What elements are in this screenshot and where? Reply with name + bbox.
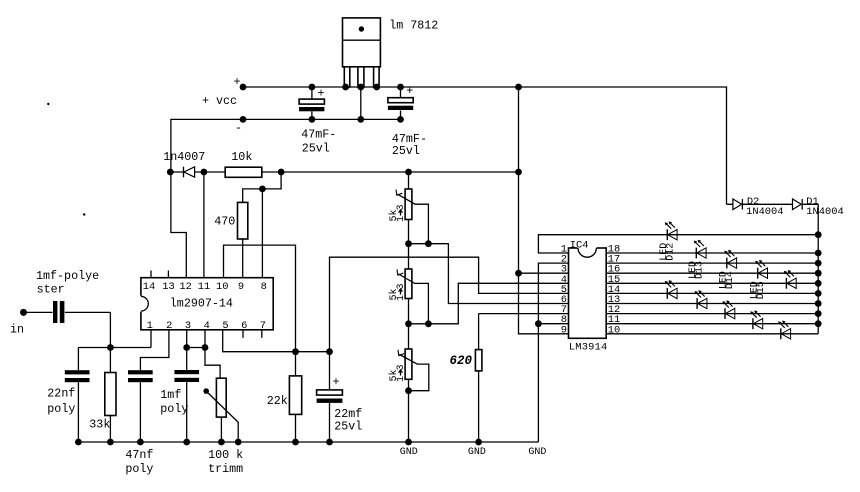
svg-text:12: 12 xyxy=(179,281,191,293)
LED 6 xyxy=(665,280,677,299)
resistor R9 620 xyxy=(450,314,482,442)
svg-text:1: 1 xyxy=(147,320,153,332)
capacitor C3 1mf-polyester xyxy=(24,269,111,323)
potentiometer R8 5k 1-3 xyxy=(388,324,429,391)
wire pin18 row xyxy=(606,252,818,254)
node v+ rail tap xyxy=(515,169,522,176)
svg-text:in: in xyxy=(10,323,24,337)
svg-text:poly: poly xyxy=(160,402,188,416)
svg-text:25vl: 25vl xyxy=(392,144,420,158)
resistor R1 10k xyxy=(225,150,262,177)
wire 7812 middle leg xyxy=(360,87,362,119)
node trimmer chain top xyxy=(405,169,412,176)
node R8 bottom xyxy=(405,387,412,394)
svg-text:1N4004: 1N4004 xyxy=(806,206,843,218)
svg-text:9: 9 xyxy=(238,281,244,293)
node R6 wiper join xyxy=(425,240,432,247)
svg-text:13: 13 xyxy=(162,281,174,293)
svg-text:GND: GND xyxy=(528,447,546,458)
resistor R5 22k xyxy=(267,352,302,442)
LED D12 xyxy=(665,221,677,240)
svg-text:6: 6 xyxy=(241,320,247,332)
LED D13 label xyxy=(688,261,706,279)
wire pin6 stub xyxy=(242,330,244,338)
node vcc to IC4 tap xyxy=(515,84,522,91)
svg-text:lm 7812: lm 7812 xyxy=(389,19,438,33)
LED D15 label xyxy=(750,281,768,299)
wire pin15 row xyxy=(606,282,818,284)
node pin3 xyxy=(183,344,190,351)
wire pin7 stub xyxy=(261,330,263,338)
wire D2 D1 feed row xyxy=(727,203,819,205)
svg-text:14: 14 xyxy=(143,281,155,293)
wire pin10 route xyxy=(224,245,296,352)
speck 2 xyxy=(83,213,85,215)
LED 5 xyxy=(784,270,796,289)
potentiometer R4 100 k trimm xyxy=(203,348,243,477)
wire pin7 row xyxy=(479,313,569,315)
node 620 gnd xyxy=(475,439,482,446)
svg-text:+ vcc: + vcc xyxy=(202,94,237,108)
wire pin5 output row xyxy=(223,330,330,352)
svg-text:D15: D15 xyxy=(756,281,767,299)
potentiometer R7 5k 1-3 xyxy=(388,244,429,324)
svg-text:poly: poly xyxy=(125,462,153,476)
svg-text:3: 3 xyxy=(396,283,407,289)
LED D14 label xyxy=(719,271,737,289)
LED 8 xyxy=(722,300,734,319)
capacitor C6 1mf poly xyxy=(160,370,199,442)
capacitor C2 47mF-25vl xyxy=(388,84,427,158)
node R8 gnd xyxy=(405,439,412,446)
node anode rail junctions xyxy=(815,231,822,238)
wire LED anode rail xyxy=(817,204,819,333)
resistor R2 470 xyxy=(214,202,248,239)
wire pin13 stub xyxy=(167,271,169,278)
svg-text:lm2907-14: lm2907-14 xyxy=(170,297,233,311)
wire signal to pin5 xyxy=(330,257,569,352)
svg-text:11: 11 xyxy=(198,281,210,293)
node legs xyxy=(342,84,349,91)
node in terminal xyxy=(20,309,27,316)
wire pin14 stub xyxy=(150,271,152,278)
svg-text:GND: GND xyxy=(400,447,418,458)
LED D13 xyxy=(694,240,706,259)
wire R7 bottom to pin4 xyxy=(409,283,569,324)
svg-text:+: + xyxy=(406,84,413,98)
svg-text:D12: D12 xyxy=(666,243,677,261)
LED 7 xyxy=(695,290,707,309)
svg-text:10: 10 xyxy=(216,281,228,293)
potentiometer R6 5k 1-3 xyxy=(388,172,429,244)
node input junction xyxy=(107,344,114,351)
wire pin11 drop xyxy=(203,172,205,278)
op-amp U1 lm2907-14 xyxy=(140,278,274,332)
svg-text:+: + xyxy=(234,75,241,89)
svg-text:ster: ster xyxy=(37,283,65,297)
node + terminal xyxy=(240,84,247,91)
wire pin10 row xyxy=(606,333,818,335)
svg-text:3: 3 xyxy=(185,320,191,332)
svg-text:D14: D14 xyxy=(725,271,736,289)
wire 470 to pin9 xyxy=(242,239,244,278)
svg-text:+: + xyxy=(333,375,340,389)
svg-text:3: 3 xyxy=(396,204,407,210)
wire pin2 route xyxy=(140,330,169,370)
svg-text:470: 470 xyxy=(214,215,235,229)
node diode right xyxy=(201,169,208,176)
node R7 bottom xyxy=(405,320,412,327)
wire 12V secondary rail xyxy=(204,171,519,173)
svg-text:47nf: 47nf xyxy=(125,448,153,462)
node pin8 junction xyxy=(535,320,542,327)
svg-text:LM3914: LM3914 xyxy=(569,342,608,354)
wire pin13 row xyxy=(606,303,818,305)
node 22k top xyxy=(292,348,299,355)
node pin3 junction xyxy=(515,270,522,277)
resistor R3 33k xyxy=(89,348,116,443)
wire R6 bottom to pin6 xyxy=(409,244,569,304)
svg-text:22nf: 22nf xyxy=(47,386,75,400)
svg-text:trimm: trimm xyxy=(208,462,243,476)
svg-text:620: 620 xyxy=(450,354,473,368)
svg-text:1mf: 1mf xyxy=(160,388,181,402)
node C1 top xyxy=(309,84,316,91)
wire minus rail xyxy=(171,119,401,172)
diode D1 1N4004 xyxy=(793,196,844,218)
wire pin12 row xyxy=(606,313,818,315)
LED D12 label xyxy=(659,243,677,261)
wire ground rail xyxy=(78,441,538,443)
node R7 wiper join xyxy=(425,320,432,327)
svg-text:47mF-: 47mF- xyxy=(301,128,336,142)
svg-text:1n4007: 1n4007 xyxy=(163,150,205,164)
svg-text:poly: poly xyxy=(47,402,75,416)
svg-text:GND: GND xyxy=(468,447,486,458)
wire pin3 pin4 node xyxy=(187,330,205,370)
wire pin2 to ground xyxy=(538,263,568,442)
svg-text:22k: 22k xyxy=(267,394,288,408)
wire pin11 row xyxy=(606,323,818,325)
wire pin16 row xyxy=(606,272,818,274)
svg-text:D13: D13 xyxy=(695,261,706,279)
wire R8 to ground xyxy=(408,391,410,442)
wire input drop xyxy=(109,312,111,347)
svg-text:-: - xyxy=(235,121,242,135)
wire pin8 tap xyxy=(538,323,568,325)
capacitor C4 22nf poly xyxy=(47,370,89,442)
diode D3 1n4007 xyxy=(163,150,205,177)
node diode left xyxy=(167,169,174,176)
capacitor C5 47nf poly xyxy=(125,370,153,476)
svg-text:1N4004: 1N4004 xyxy=(746,206,783,218)
wire pin14 row xyxy=(606,292,818,294)
node C2 top xyxy=(397,84,404,91)
svg-text:1: 1 xyxy=(396,376,407,382)
svg-text:8: 8 xyxy=(261,281,267,293)
node pin4 xyxy=(202,344,209,351)
node R6 bottom xyxy=(405,240,412,247)
LED D14 xyxy=(724,250,736,269)
svg-text:10: 10 xyxy=(608,324,620,336)
node 10k right xyxy=(278,169,285,176)
svg-text:1mf-polye: 1mf-polye xyxy=(36,269,99,283)
wire minus rail down jog to pin12 xyxy=(171,172,186,278)
wire 470 feed xyxy=(243,172,281,202)
node C1 bottom xyxy=(309,116,316,123)
capacitor C7 22mf 25vl xyxy=(317,352,363,442)
capacitor C1 47mF-25vl xyxy=(299,87,336,156)
node C2 bottom xyxy=(397,116,404,123)
diode D2 1N4004 xyxy=(733,196,784,218)
LED 10 xyxy=(778,321,790,340)
svg-text:10k: 10k xyxy=(231,150,252,164)
svg-text:IC4: IC4 xyxy=(570,239,589,251)
LED 9 xyxy=(750,310,762,329)
svg-text:25vl: 25vl xyxy=(334,420,362,434)
node - terminal xyxy=(240,116,247,123)
wire pin8 drop xyxy=(261,189,263,278)
regulator U2 lm 7812 xyxy=(343,18,439,87)
wire v+ vertical to pin3 pin9 xyxy=(519,87,569,334)
wire pin17 row xyxy=(606,262,818,264)
svg-text:100 k: 100 k xyxy=(208,448,243,462)
svg-text:7: 7 xyxy=(260,320,266,332)
wire input node row xyxy=(78,330,151,370)
LED D15 xyxy=(755,260,767,279)
svg-text:25vl: 25vl xyxy=(302,142,330,156)
svg-text:33k: 33k xyxy=(89,418,110,432)
node gnd junctions xyxy=(75,439,82,446)
svg-text:9: 9 xyxy=(561,324,567,336)
wire +vcc rail xyxy=(243,87,727,204)
node 22mf top xyxy=(326,348,333,355)
wire pin1 over the top xyxy=(538,235,818,253)
svg-text:+: + xyxy=(318,87,325,101)
svg-text:1: 1 xyxy=(396,216,407,222)
svg-text:3: 3 xyxy=(396,364,407,370)
LED driver IC4 LM3914 xyxy=(561,239,621,353)
svg-text:1: 1 xyxy=(396,295,407,301)
speck 1 xyxy=(47,103,49,105)
node 470/pin8 junction xyxy=(259,186,266,193)
